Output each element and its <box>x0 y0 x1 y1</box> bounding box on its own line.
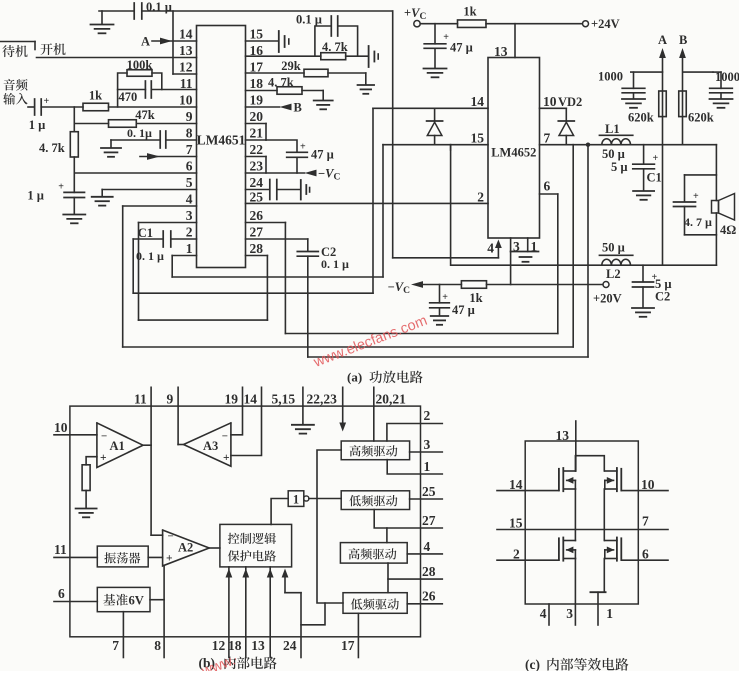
svg-text:2: 2 <box>424 408 431 423</box>
svg-text:13: 13 <box>179 43 193 58</box>
svg-text:4: 4 <box>424 539 431 554</box>
svg-text:4: 4 <box>487 241 494 256</box>
svg-text:26: 26 <box>422 589 436 604</box>
svg-text:+: + <box>300 142 306 153</box>
svg-text:47 µ: 47 µ <box>452 303 475 317</box>
svg-text:14: 14 <box>471 94 485 109</box>
svg-text:14: 14 <box>509 477 523 492</box>
svg-text:22,23: 22,23 <box>307 392 338 407</box>
svg-text:C1: C1 <box>138 226 153 240</box>
svg-text:5 µ: 5 µ <box>611 160 628 174</box>
svg-text:47k: 47k <box>135 108 155 122</box>
svg-text:11: 11 <box>134 392 147 407</box>
svg-text:3: 3 <box>424 437 431 452</box>
svg-text:620k: 620k <box>628 111 654 125</box>
svg-text:+: + <box>44 96 50 107</box>
svg-text:10: 10 <box>641 477 655 492</box>
svg-text:10: 10 <box>543 94 557 109</box>
svg-text:24: 24 <box>283 638 297 653</box>
svg-text:−: − <box>168 531 174 543</box>
svg-text:4. 7k: 4. 7k <box>322 40 348 54</box>
svg-text:8: 8 <box>154 638 161 653</box>
svg-text:6: 6 <box>58 586 65 601</box>
svg-text:1k: 1k <box>463 5 476 19</box>
svg-text:0.1 µ: 0.1 µ <box>296 13 322 27</box>
svg-text:12: 12 <box>212 638 226 653</box>
svg-text:7: 7 <box>544 131 551 146</box>
svg-text:15: 15 <box>509 516 523 531</box>
svg-text:3: 3 <box>186 208 193 223</box>
svg-text:50 µ: 50 µ <box>602 147 625 161</box>
svg-text:4: 4 <box>540 606 547 621</box>
svg-text:+: + <box>58 182 64 193</box>
svg-text:1000: 1000 <box>598 70 623 84</box>
svg-text:A1: A1 <box>110 439 125 453</box>
svg-text:3: 3 <box>513 239 520 254</box>
svg-text:27: 27 <box>250 225 264 240</box>
svg-text:7: 7 <box>642 514 649 529</box>
svg-text:25: 25 <box>422 484 436 499</box>
svg-text:17: 17 <box>341 638 355 653</box>
svg-text:9: 9 <box>167 392 174 407</box>
svg-text:100k: 100k <box>127 58 153 72</box>
svg-text:9: 9 <box>186 109 193 124</box>
svg-text:+: + <box>653 153 659 164</box>
svg-text:26: 26 <box>250 208 264 223</box>
svg-text:13: 13 <box>494 44 508 59</box>
svg-text:15: 15 <box>471 131 485 146</box>
svg-text:1000: 1000 <box>715 70 739 84</box>
svg-text:2: 2 <box>186 225 193 240</box>
svg-text:A2: A2 <box>178 541 193 555</box>
svg-text:20: 20 <box>250 109 264 124</box>
svg-text:4. 7k: 4. 7k <box>39 141 65 155</box>
svg-text:1k: 1k <box>89 89 102 103</box>
svg-text:0. 1 µ: 0. 1 µ <box>136 249 164 263</box>
svg-text:+: + <box>100 452 107 464</box>
svg-text:5: 5 <box>186 175 193 190</box>
svg-text:0. 1 µ: 0. 1 µ <box>321 257 349 271</box>
svg-text:10: 10 <box>179 93 193 108</box>
svg-text:22: 22 <box>250 142 264 157</box>
svg-text:1: 1 <box>293 493 299 507</box>
svg-text:5,15: 5,15 <box>272 392 296 407</box>
svg-text:4. 7 µ: 4. 7 µ <box>684 215 712 229</box>
svg-text:0.1 µ: 0.1 µ <box>146 0 172 14</box>
svg-text:L1: L1 <box>605 122 620 136</box>
svg-text:13: 13 <box>251 638 265 653</box>
svg-text:−: − <box>222 431 228 443</box>
svg-text:+24V: +24V <box>591 17 620 31</box>
svg-text:1 µ: 1 µ <box>29 118 46 132</box>
svg-text:VD2: VD2 <box>558 95 582 109</box>
svg-text:(c): (c) <box>525 657 540 671</box>
svg-text:A3: A3 <box>203 439 218 453</box>
svg-text:A: A <box>658 33 667 47</box>
svg-text:18: 18 <box>250 76 264 91</box>
svg-text:0. 1µ: 0. 1µ <box>127 126 152 140</box>
svg-text:2: 2 <box>477 190 484 205</box>
svg-text:+: + <box>442 292 448 303</box>
svg-text:470: 470 <box>119 90 138 104</box>
svg-text:3: 3 <box>566 606 573 621</box>
svg-text:14: 14 <box>244 392 258 407</box>
svg-text:47 µ: 47 µ <box>311 148 334 162</box>
svg-text:28: 28 <box>250 241 264 256</box>
svg-text:12: 12 <box>179 60 193 75</box>
svg-text:21: 21 <box>250 126 264 141</box>
svg-text:LM4651: LM4651 <box>197 133 246 148</box>
svg-text:+: + <box>223 452 230 464</box>
svg-text:6V: 6V <box>129 594 144 608</box>
svg-text:27: 27 <box>422 513 436 528</box>
svg-text:8: 8 <box>186 126 193 141</box>
svg-text:47 µ: 47 µ <box>450 41 473 55</box>
svg-text:19: 19 <box>225 392 239 407</box>
svg-text:C1: C1 <box>647 171 662 185</box>
svg-text:C2: C2 <box>655 290 670 304</box>
svg-text:1: 1 <box>606 606 613 621</box>
svg-text:620k: 620k <box>688 111 714 125</box>
svg-text:B: B <box>294 101 302 115</box>
svg-text:6: 6 <box>642 547 649 562</box>
svg-text:1 µ: 1 µ <box>27 189 44 203</box>
svg-text:11: 11 <box>54 542 67 557</box>
svg-text:7: 7 <box>112 638 119 653</box>
svg-text:4Ω: 4Ω <box>720 223 736 237</box>
svg-text:20,21: 20,21 <box>376 392 407 407</box>
svg-text:24: 24 <box>250 175 264 190</box>
svg-text:6: 6 <box>544 179 551 194</box>
svg-text:23: 23 <box>250 159 264 174</box>
svg-text:15: 15 <box>250 27 264 42</box>
svg-text:(a): (a) <box>347 370 362 385</box>
svg-text:+: + <box>693 191 699 202</box>
svg-text:1: 1 <box>186 241 193 256</box>
svg-text:50 µ: 50 µ <box>602 241 625 255</box>
svg-text:+: + <box>166 553 173 565</box>
svg-text:1: 1 <box>531 239 538 254</box>
svg-text:L2: L2 <box>606 267 621 281</box>
svg-text:13: 13 <box>556 428 570 443</box>
svg-text:6: 6 <box>186 159 193 174</box>
svg-text:4: 4 <box>186 192 193 207</box>
svg-text:1: 1 <box>424 459 431 474</box>
svg-text:B: B <box>679 33 687 47</box>
svg-text:14: 14 <box>179 27 193 42</box>
svg-text:4. 7k: 4. 7k <box>268 76 294 90</box>
svg-text:18: 18 <box>228 638 242 653</box>
svg-text:+: + <box>443 32 449 43</box>
svg-text:2: 2 <box>513 547 520 562</box>
svg-text:A: A <box>141 35 150 49</box>
svg-text:28: 28 <box>422 564 436 579</box>
svg-text:25: 25 <box>250 189 264 204</box>
svg-text:10: 10 <box>54 420 68 435</box>
svg-text:+20V: +20V <box>593 292 622 306</box>
svg-text:−: − <box>101 431 107 443</box>
svg-text:19: 19 <box>250 93 264 108</box>
svg-text:7: 7 <box>186 142 193 157</box>
svg-text:LM4652: LM4652 <box>491 146 536 160</box>
svg-text:29k: 29k <box>281 59 301 73</box>
